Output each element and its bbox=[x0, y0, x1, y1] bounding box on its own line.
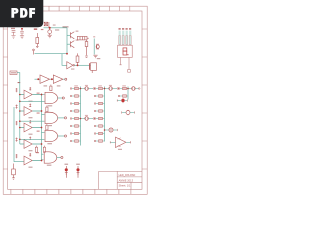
capacitor C2 bbox=[20, 29, 24, 36]
node junction J2 bbox=[49, 27, 51, 29]
ground under C2 bbox=[20, 36, 24, 39]
OR gate G1 bbox=[45, 92, 58, 103]
transistor Q2 bbox=[70, 41, 74, 48]
label text under badge bbox=[34, 28, 37, 30]
diode D3 bottom-left bbox=[12, 164, 16, 180]
transistor Q10 bbox=[122, 110, 135, 115]
junction dots bus B bbox=[19, 94, 21, 129]
frame column ticks bottom bbox=[11, 189, 131, 194]
inverter T1 bbox=[24, 90, 32, 99]
OR gate G3 bbox=[45, 130, 58, 141]
power pin above T4 bbox=[29, 137, 31, 141]
pin stub p2 bbox=[16, 105, 18, 109]
op-amp U2 triangle bbox=[110, 137, 130, 147]
frame row ticks right bbox=[142, 29, 147, 169]
crystal Y1 bbox=[90, 63, 97, 73]
display leg right bbox=[128, 57, 130, 69]
transistor Q1 bbox=[70, 32, 74, 39]
resistor network RN1 teal columns bbox=[119, 31, 132, 45]
cluster col3 stubs bbox=[118, 85, 128, 97]
resistor RG3 above G3 bbox=[46, 124, 48, 130]
wire bus C vertical bbox=[41, 94, 43, 161]
label under T3 bbox=[29, 134, 33, 135]
tiny net labels left of gate inputs bbox=[36, 93, 40, 154]
wire branch to transistor Q1 bbox=[67, 34, 70, 36]
pad at leg right bbox=[128, 70, 131, 73]
label right of Q2 bbox=[76, 40, 79, 41]
RN1 labels bbox=[119, 28, 132, 29]
frame column ticks top bbox=[19, 6, 130, 11]
LED D2 bbox=[76, 164, 80, 178]
junction dots on bus C bbox=[41, 94, 43, 162]
label under G2 bbox=[47, 125, 52, 126]
label right of Q1 bbox=[76, 31, 79, 32]
wire T0 output to crystal bbox=[75, 64, 91, 66]
schematic frame outer border bbox=[3, 6, 147, 194]
label under G3 bbox=[47, 143, 52, 144]
polarized capacitor C4 below J2 bbox=[48, 29, 52, 35]
ground under C1 bbox=[11, 36, 15, 39]
transistor Q8 col3 bbox=[127, 87, 140, 91]
ground G3 bbox=[48, 35, 52, 38]
cluster column 1 rail bbox=[80, 87, 82, 146]
label under TH1 bbox=[44, 85, 48, 86]
wire label to bus B bbox=[17, 73, 20, 144]
port mark G3 bbox=[64, 135, 66, 137]
label under T4 bbox=[29, 150, 33, 151]
transistor Q9 bbox=[117, 98, 127, 103]
resistor R6 above G4 bbox=[43, 146, 45, 153]
frame row ticks left bbox=[3, 29, 7, 169]
wire bus A bbox=[14, 107, 24, 162]
label under T2 bbox=[29, 117, 33, 118]
wire G2 output bbox=[58, 117, 65, 119]
label under U2 bbox=[118, 149, 122, 150]
transistor Q4 col1 bbox=[80, 85, 95, 90]
transistor Q5 col1 bbox=[80, 115, 95, 120]
resistor RG2 above G2 bbox=[46, 106, 48, 112]
OR gate G4 bbox=[44, 152, 57, 163]
title block bbox=[99, 171, 142, 189]
wire teal at x94 bbox=[93, 39, 95, 55]
resistor R1 vertical bbox=[36, 33, 39, 48]
junction dot TH2 input bbox=[51, 78, 53, 80]
digit decimal point bbox=[127, 54, 128, 55]
wire G4 output bbox=[57, 157, 61, 159]
net label CLOCK box bbox=[10, 71, 17, 75]
wires bus C to gate inputs bbox=[42, 95, 45, 160]
node junction J1 bbox=[21, 28, 23, 30]
label under TH2 bbox=[57, 85, 61, 86]
7-segment digit glyph bbox=[123, 48, 127, 55]
pin stub p3 bbox=[16, 121, 18, 125]
7-segment display DIS1 box bbox=[118, 45, 133, 57]
power pin above T5 bbox=[29, 153, 31, 157]
resistor R4 below R3 bbox=[85, 40, 88, 58]
display leg left bbox=[119, 57, 121, 64]
pin P0 top-left bbox=[33, 49, 35, 54]
OR gate G2 bbox=[45, 112, 58, 123]
wires inverter outputs to bus C bbox=[32, 95, 41, 161]
label under T0 bbox=[71, 69, 74, 70]
transistor Q7 col2 bbox=[104, 128, 118, 132]
net label CLOCK text bbox=[11, 72, 16, 73]
label under G4 bbox=[47, 165, 52, 166]
transistor Q3 bbox=[96, 44, 99, 49]
tiny text right of bus B bbox=[18, 82, 21, 83]
port mark G2 bbox=[64, 117, 66, 119]
label under T5 bbox=[29, 167, 33, 168]
inverter T5 bbox=[24, 156, 32, 165]
pin stub p4 bbox=[16, 138, 18, 142]
label above C1 bbox=[11, 28, 15, 29]
resistor R5 above G4 bbox=[35, 146, 37, 153]
wire into TH1 bbox=[35, 78, 66, 80]
small label under badge corner bbox=[41, 29, 44, 30]
port mark G1 bbox=[62, 97, 64, 99]
cluster column 3 rail bbox=[127, 87, 129, 100]
capacitor C1 bbox=[12, 31, 16, 36]
wire bus B taps to inverter inputs bbox=[20, 95, 24, 145]
label under T1 bbox=[29, 101, 33, 102]
pin stub p5 bbox=[16, 154, 18, 158]
junction dot TH1 input bbox=[37, 78, 39, 80]
cluster column 2 rail bbox=[104, 87, 106, 142]
inverter T4 bbox=[24, 140, 32, 149]
PDF badge bbox=[0, 0, 149, 198]
wire top rail bbox=[44, 27, 68, 29]
resistor RN1 bodies bbox=[119, 36, 132, 45]
LED D1 bbox=[65, 164, 69, 178]
node junction J4 bbox=[66, 53, 68, 55]
port mark G4 bbox=[61, 156, 63, 158]
inverter TH2 horizontal bbox=[53, 75, 63, 83]
wires bus B to gate lower inputs bbox=[20, 101, 45, 139]
resistor R3 horizontal bbox=[77, 36, 89, 40]
inverter T2 bbox=[24, 107, 32, 116]
net label gray bbox=[53, 25, 56, 26]
power pin above T3 bbox=[29, 120, 31, 124]
cluster col2 input stubs bbox=[94, 85, 104, 142]
inverter T3 bbox=[24, 123, 32, 132]
wire vertical drop at x67 bbox=[66, 28, 68, 54]
ground G4 bbox=[93, 55, 97, 58]
cluster col1 input stubs bbox=[70, 85, 80, 142]
pin stub p1 bbox=[16, 88, 18, 92]
wire G1 output bbox=[58, 97, 63, 99]
junction dots gate lower inputs bbox=[19, 101, 21, 141]
transistor Q6 col2 bbox=[104, 85, 119, 90]
power pin above T2 bbox=[29, 104, 31, 108]
net label on top rail bbox=[63, 26, 69, 27]
label under G1 bbox=[48, 105, 53, 106]
label right of crystal bbox=[97, 58, 101, 59]
node junction J3 bbox=[77, 64, 79, 66]
resistor R2 above wire bbox=[76, 53, 79, 65]
wire P0 to inverter T0 bbox=[35, 54, 68, 66]
wire G3 output bbox=[58, 135, 65, 137]
tick above teal wire bbox=[93, 36, 95, 38]
capacitor C3 on top rail bbox=[44, 22, 49, 28]
resistor RG1 above G1 bbox=[50, 85, 52, 91]
inverter T0 bbox=[67, 62, 75, 69]
port mark TH2 output bbox=[65, 78, 67, 80]
wire branch to transistor Q2 bbox=[67, 43, 70, 45]
power pin above T1 bbox=[29, 87, 31, 91]
inverter TH1 horizontal bbox=[40, 75, 50, 83]
